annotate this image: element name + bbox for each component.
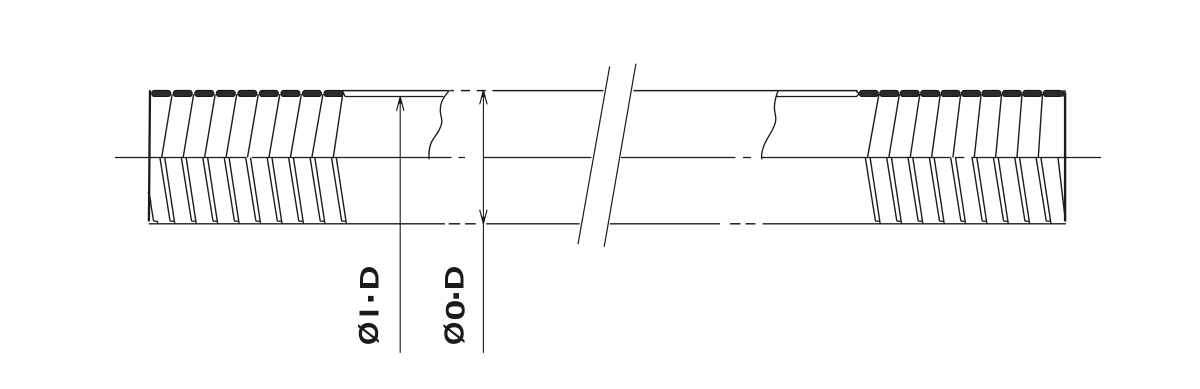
ID dimension line (399, 98, 401, 353)
label phi I.D period (368, 296, 374, 302)
right section upper flank lines (868, 94, 1043, 157)
svg-text:Ø: Ø (440, 322, 471, 346)
svg-text:Ø: Ø (354, 322, 385, 346)
right end edge line (1064, 93, 1066, 222)
bottom OD outline break dashes right (730, 223, 756, 225)
ID dimension arrow (up) (397, 97, 404, 111)
left section upper flank lines (162, 94, 343, 157)
OD dimension line (482, 91, 484, 353)
top OD outline middle section B (634, 90, 858, 92)
label phi 0.D period (453, 293, 459, 299)
left break squiggle (429, 90, 450, 159)
right end cap filler (1060, 90, 1066, 96)
left ID line with hook (343, 93, 443, 97)
left end edge line (149, 90, 150, 221)
right OD-to-bar hook (856, 91, 859, 94)
OD dimension arrow top (up) (480, 90, 487, 104)
bottom OD outline left section (149, 223, 445, 225)
centerline (chain line) (115, 157, 1101, 159)
right section lower seam pairs with bottom notches (865, 158, 1065, 224)
break slash line 1 (578, 66, 610, 244)
top OD outline break dashes (450, 90, 486, 92)
left section helical bars (convolution crests) (152, 90, 344, 96)
break slash line 2 (604, 64, 636, 247)
left OD-to-bar hook (342, 91, 344, 93)
bottom OD outline middle B (610, 223, 720, 225)
top OD outline middle section A (493, 90, 604, 92)
OD dimension arrow bottom (down) (480, 210, 487, 224)
right ID line with hook (776, 94, 859, 97)
svg-text:I: I (354, 309, 385, 318)
bottom OD outline break dashes left (449, 223, 476, 225)
top OD outline left plain section (342, 90, 450, 92)
left section lower seam pairs with bottom notches (160, 158, 346, 224)
bottom OD outline right section (763, 223, 1066, 225)
svg-text:D: D (355, 266, 385, 291)
bottom OD outline middle A (486, 223, 579, 225)
svg-text:D: D (440, 266, 470, 291)
right section helical bars (convolution crests) (859, 90, 1062, 96)
left edge half convolution (149, 192, 158, 224)
svg-text:0: 0 (440, 300, 470, 321)
right break squiggle (762, 90, 779, 159)
